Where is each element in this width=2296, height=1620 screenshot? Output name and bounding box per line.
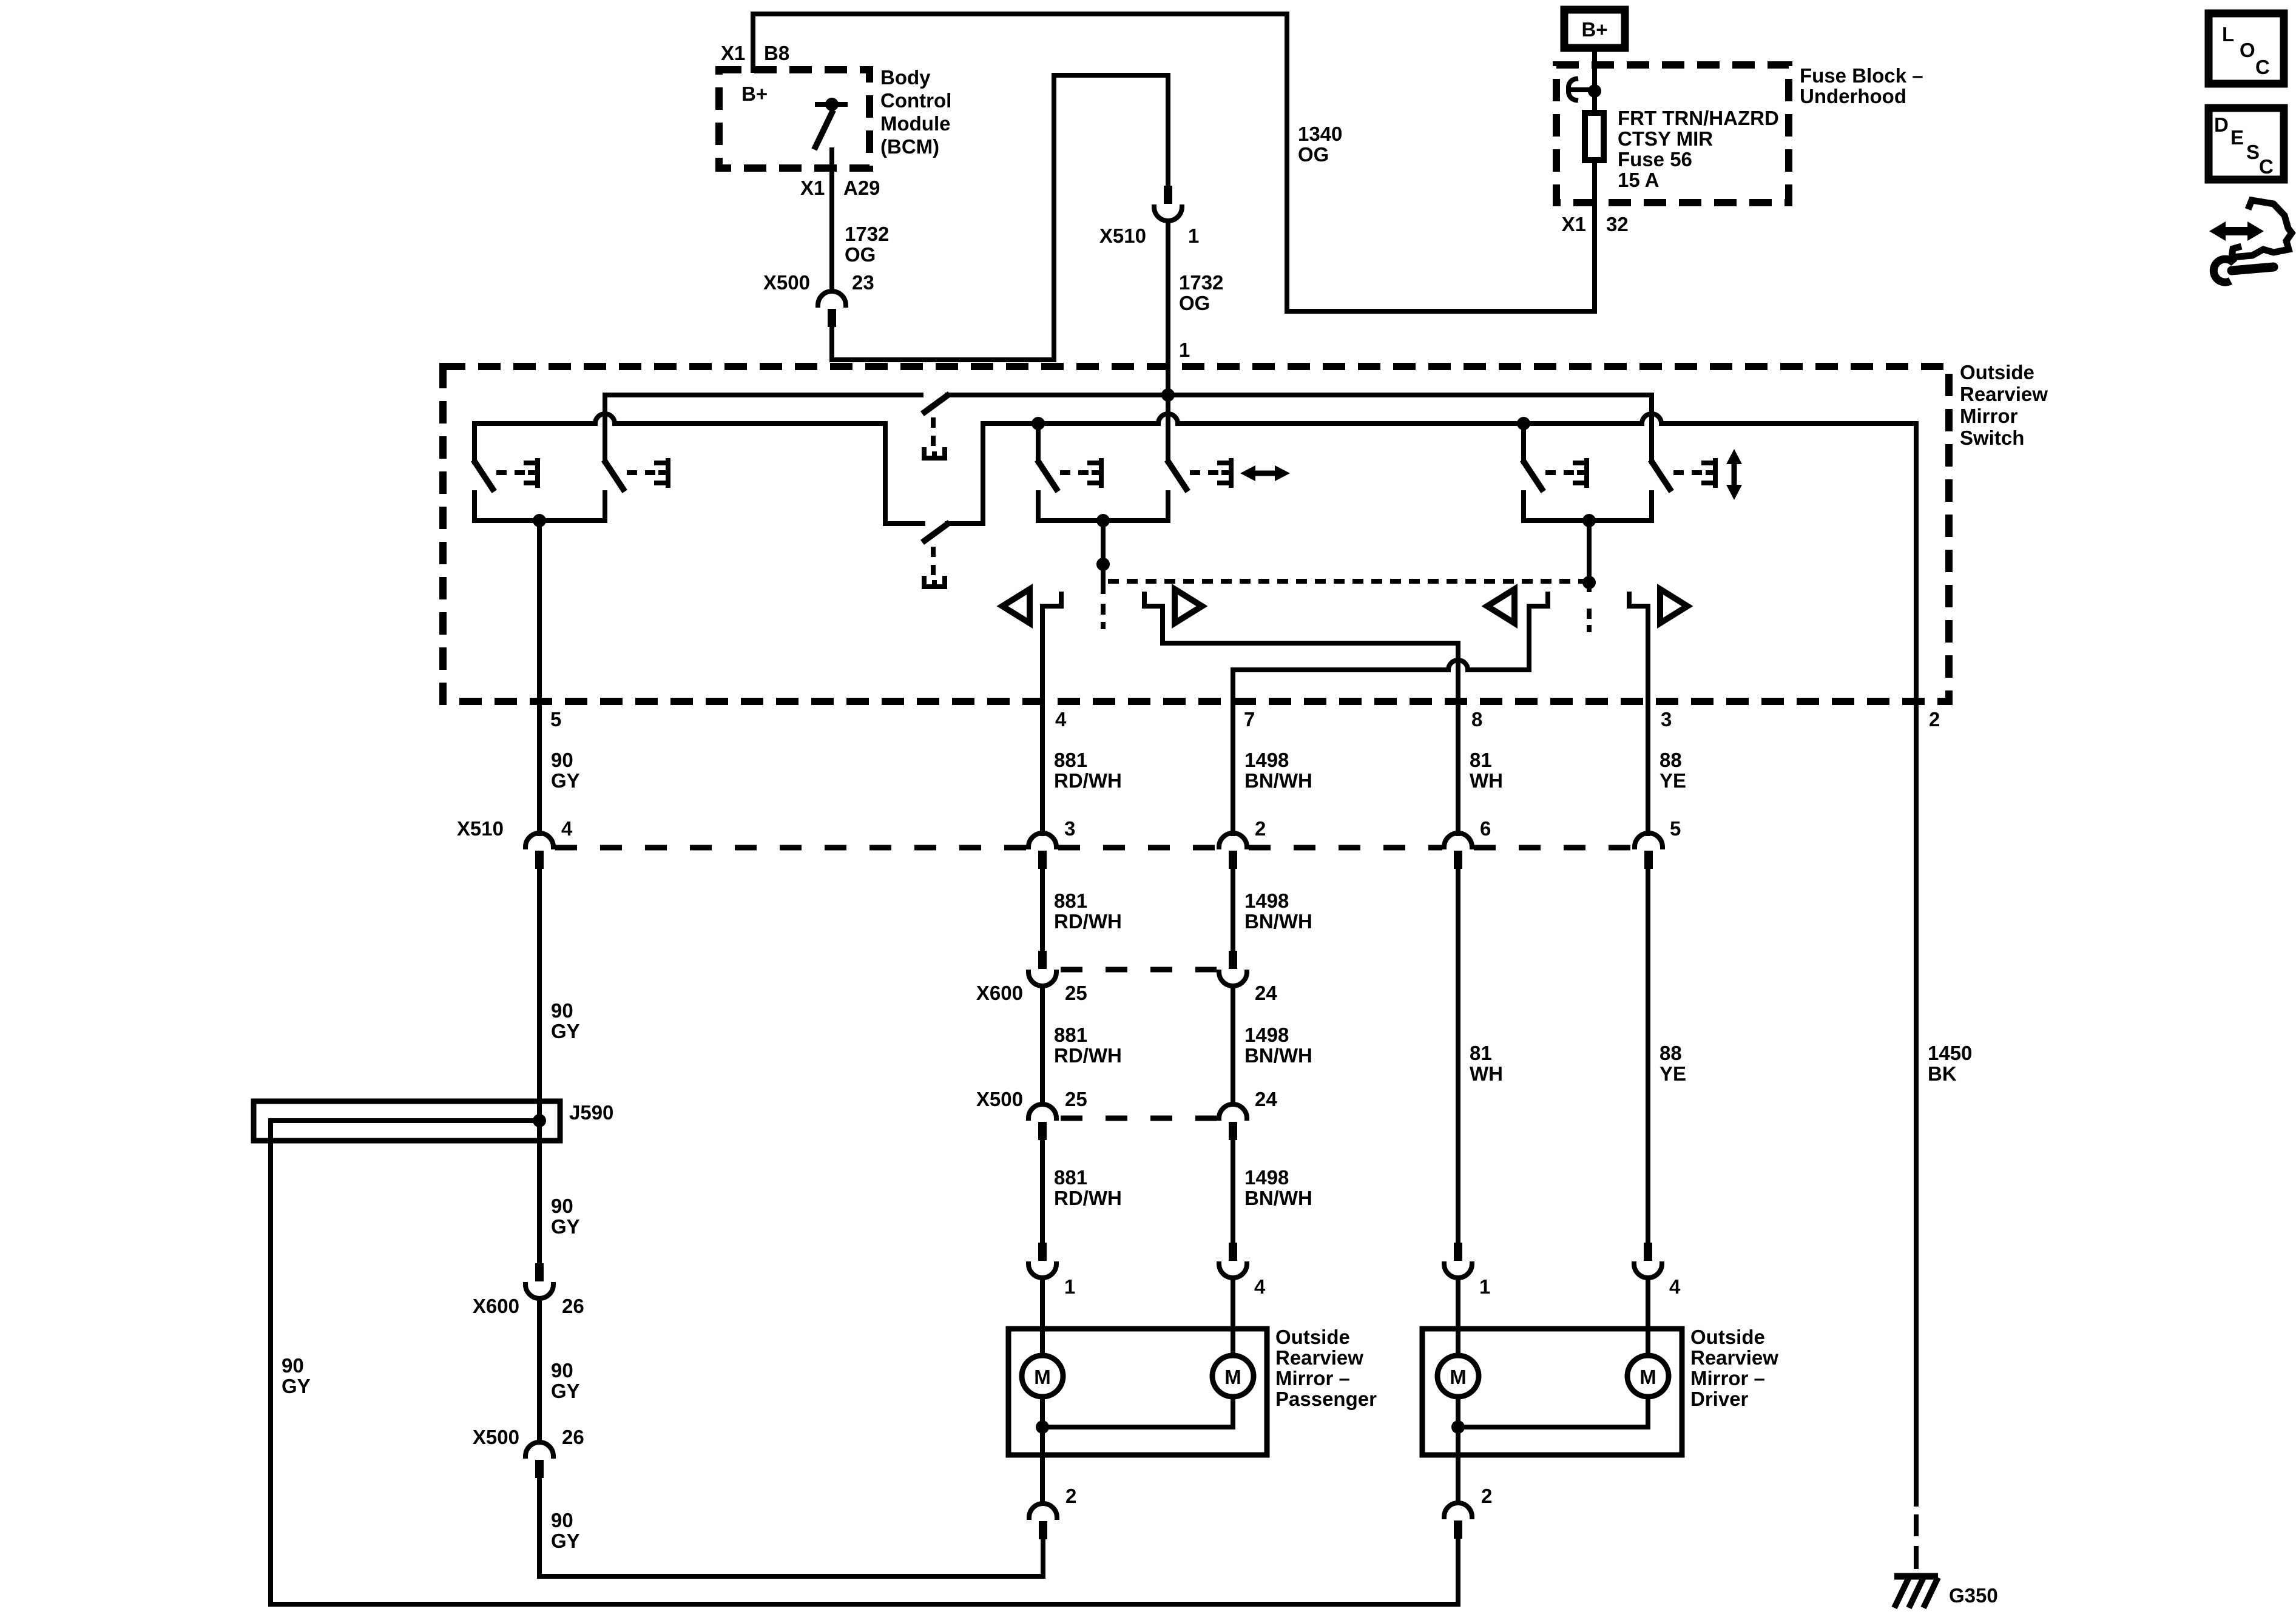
svg-text:2: 2 (1481, 1485, 1492, 1507)
svg-text:1450: 1450 (1928, 1042, 1972, 1064)
svg-text:15 A: 15 A (1618, 169, 1659, 191)
wire passenger pin 2 (1040, 1427, 1045, 1504)
svg-text:GY: GY (551, 769, 580, 792)
label wire 881 RD/WH (second) (1054, 889, 1122, 933)
svg-text:X600: X600 (473, 1295, 519, 1317)
svg-text:GY: GY (282, 1375, 311, 1397)
ground G350 symbol (1894, 1576, 1938, 1608)
svg-text:M: M (1639, 1366, 1656, 1388)
svg-text:RD/WH: RD/WH (1054, 769, 1122, 792)
svg-text:OG: OG (1179, 292, 1210, 314)
node pair A output junction (533, 514, 546, 527)
svg-text:1340: 1340 (1298, 123, 1342, 145)
label wire 90 GY (left branch) (282, 1354, 311, 1397)
icon mirror adjust with wrench (2209, 200, 2292, 282)
wire pin 8 (1456, 643, 1460, 834)
svg-text:1: 1 (1064, 1275, 1075, 1298)
svg-text:26: 26 (562, 1295, 584, 1317)
svg-text:S: S (2246, 141, 2260, 163)
switch A2 (left pair, bus1 feed) (605, 395, 656, 489)
svg-text:Rearview: Rearview (1275, 1346, 1363, 1369)
svg-text:X500: X500 (473, 1426, 519, 1448)
fuse clip terminal (1568, 79, 1592, 100)
indicator triangle left-group right (1175, 589, 1202, 623)
node pair C output junction (1582, 514, 1596, 527)
node X1 A29 (800, 177, 880, 199)
svg-text:J590: J590 (569, 1101, 613, 1124)
label wire 90 GY (pin5 upper) (551, 749, 580, 792)
svg-text:6: 6 (1480, 817, 1491, 840)
svg-text:90: 90 (551, 749, 573, 771)
node pair B output junction (1096, 514, 1110, 527)
svg-text:B8: B8 (764, 42, 789, 64)
svg-text:GY: GY (551, 1215, 580, 1238)
wire passenger pin 2 to 90 GY (1041, 1539, 1045, 1576)
svg-text:4: 4 (1254, 1275, 1266, 1298)
arrow up-down mirror adjust (1726, 449, 1742, 500)
svg-text:90: 90 (551, 1195, 573, 1217)
wire pin 4 (1040, 606, 1045, 834)
label 1732 OG (lower) (1179, 271, 1223, 314)
svg-text:24: 24 (1255, 1088, 1277, 1110)
connector X600 pin 26 (525, 1263, 553, 1298)
svg-text:1498: 1498 (1244, 889, 1289, 912)
wire BCM pin A29 down (829, 150, 834, 291)
contact bracket B1 (1090, 461, 1101, 485)
power B+ terminal box (fuse block) (1564, 10, 1625, 48)
wire driver pin 2 (1456, 1427, 1460, 1503)
svg-text:Fuse Block –: Fuse Block – (1800, 64, 1923, 87)
svg-text:X510: X510 (457, 817, 504, 840)
wire into driver motor pin4 (1646, 1278, 1650, 1376)
wire 1498 BN/WH between X600 and X500 (1231, 986, 1235, 1104)
svg-text:5: 5 (1670, 817, 1681, 840)
svg-text:32: 32 (1606, 213, 1629, 235)
wire into passenger motor pin4 (1231, 1278, 1235, 1376)
wire pair B common stub (1101, 521, 1106, 592)
wire B+ feed from fuse X1-32 to BCM X1-B8 (753, 14, 1595, 311)
icon LOC box (2209, 13, 2284, 84)
svg-text:GY: GY (551, 1530, 580, 1552)
svg-text:GY: GY (551, 1020, 580, 1042)
svg-text:BN/WH: BN/WH (1244, 1044, 1312, 1067)
switch B2 (center pair right, 1732 feed) (1168, 397, 1219, 489)
svg-text:RD/WH: RD/WH (1054, 1044, 1122, 1067)
indicator triangle right-group left (1487, 589, 1514, 623)
svg-text:Driver: Driver (1690, 1388, 1749, 1410)
svg-text:Rearview: Rearview (1960, 383, 2048, 405)
svg-text:25: 25 (1065, 982, 1087, 1004)
svg-text:23: 23 (852, 271, 874, 294)
svg-text:Mirror –: Mirror – (1690, 1367, 1765, 1389)
svg-text:X500: X500 (763, 271, 810, 294)
svg-text:4: 4 (1669, 1275, 1681, 1298)
node X1 32 (fuse block pin) (1562, 213, 1629, 235)
svg-text:YE: YE (1660, 769, 1686, 792)
svg-text:Outside: Outside (1275, 1326, 1350, 1348)
module Fuse Block - Underhood dashed box (1556, 65, 1789, 203)
svg-text:2: 2 (1255, 817, 1266, 840)
wire 88 YE to driver motor (1646, 869, 1650, 1243)
wire pin 7 (1231, 670, 1235, 834)
connector X600 pin 24 (1219, 951, 1247, 986)
svg-text:881: 881 (1054, 749, 1087, 771)
wire 90 GY pin5 column below X510 (537, 869, 542, 1263)
svg-text:1732: 1732 (845, 223, 889, 245)
connector row X600 dashed line (1061, 967, 1217, 973)
label wire 88 YE (pin3 upper) (1660, 749, 1686, 792)
label 1732 OG (upper left) (845, 223, 889, 266)
svg-text:M: M (1224, 1366, 1241, 1388)
motor M passenger left-right (1022, 1355, 1063, 1397)
wire pin 3 (1646, 606, 1650, 834)
wire 881 RD/WH to passenger motor (1040, 1140, 1045, 1243)
svg-text:8: 8 (1471, 708, 1482, 731)
svg-text:Mirror: Mirror (1960, 405, 2018, 427)
wire 1732 OG into switch pin 1 (1166, 221, 1170, 397)
node driver common junction (1451, 1420, 1465, 1434)
connector X500 pin 23 (818, 291, 846, 327)
wire U-frame pair B (1038, 493, 1168, 521)
svg-text:(BCM): (BCM) (880, 135, 939, 158)
svg-text:D: D (2214, 113, 2229, 136)
icon DESC box (2209, 108, 2284, 180)
label wire 81 WH (lower) (1470, 1042, 1503, 1085)
svg-text:88: 88 (1660, 749, 1682, 771)
label wire 1498 BN/WH (second) (1244, 889, 1312, 933)
svg-text:1732: 1732 (1179, 271, 1223, 294)
switch center select lower (blade on bus2 dip) (925, 524, 947, 576)
svg-text:B+: B+ (1581, 18, 1607, 41)
indicator bracket left-group right (to pin 8) (1144, 594, 1163, 643)
wire driver pin 2 to ground branch (1456, 1539, 1460, 1604)
connector X500 pin 25 (1028, 1104, 1056, 1140)
fuse F56 (FRT TRN/HAZRD CTSY MIR Fuse 56 15 A) (1585, 113, 1604, 160)
svg-text:B+: B+ (741, 83, 768, 105)
node X1 B8 (BCM pin label) (721, 42, 789, 64)
svg-text:BN/WH: BN/WH (1244, 910, 1312, 933)
node bus2 junction feeding switch B1 (1032, 417, 1045, 430)
wire passenger motor commons (1042, 1397, 1233, 1427)
svg-text:BN/WH: BN/WH (1244, 1187, 1312, 1209)
switch B1 (center pair left) (1038, 424, 1089, 489)
wire jog to pin 8 (1163, 641, 1458, 646)
svg-text:X510: X510 (1099, 224, 1146, 247)
connector passenger mirror pin 4 (1219, 1243, 1247, 1278)
connector X600 pin 25 (1028, 951, 1056, 986)
wire 90 GY to passenger mirror pin 2 (539, 1478, 1043, 1576)
label wire 88 YE (lower) (1660, 1042, 1686, 1085)
module Outside Rearview Mirror - Driver box (1422, 1329, 1682, 1455)
svg-text:7: 7 (1244, 708, 1255, 731)
svg-text:1498: 1498 (1244, 1024, 1289, 1046)
node bus1 / 1732 OG junction (1161, 388, 1175, 402)
module BCM box (Body Control Module) (719, 70, 869, 168)
svg-text:81: 81 (1470, 749, 1492, 771)
svg-text:2: 2 (1929, 708, 1940, 731)
label wire 1450 BK (1928, 1042, 1972, 1085)
contact bracket center upper (924, 450, 945, 458)
label wire 81 WH (pin8 upper) (1470, 749, 1503, 792)
node bus2 junction feeding switch C1 (1517, 417, 1530, 430)
connector X510 pin 6 (1444, 833, 1472, 869)
wire ground branch from J590 (271, 1121, 1457, 1604)
wire U-frame pair C (1524, 493, 1652, 521)
svg-text:M: M (1450, 1366, 1467, 1388)
svg-text:M: M (1034, 1366, 1051, 1388)
contact bracket center lower (924, 578, 945, 587)
svg-text:Control: Control (880, 89, 951, 112)
svg-text:X1: X1 (1562, 213, 1586, 235)
connector X500 pin 26 (525, 1442, 553, 1478)
connector driver mirror pin 2 (1444, 1503, 1472, 1539)
svg-text:3: 3 (1064, 817, 1075, 840)
wire pin 5 (537, 521, 542, 834)
svg-text:Outside: Outside (1690, 1326, 1765, 1348)
wire into driver motor (1456, 1278, 1460, 1376)
svg-text:81: 81 (1470, 1042, 1492, 1064)
svg-text:A29: A29 (843, 177, 880, 199)
module Outside Rearview Mirror - Passenger box (1008, 1329, 1267, 1455)
svg-text:4: 4 (1055, 708, 1067, 731)
linkage dashed line between pair B and pair C commons (1108, 579, 1589, 584)
label wire 1498 BN/WH (pin7 upper) (1244, 749, 1312, 792)
svg-text:Outside: Outside (1960, 361, 2034, 383)
svg-text:OG: OG (845, 243, 876, 266)
svg-text:1: 1 (1188, 224, 1199, 247)
svg-text:OG: OG (1298, 143, 1329, 166)
svg-text:FRT TRN/HAZRD: FRT TRN/HAZRD (1618, 107, 1779, 129)
switch center select upper (blade on bus1) (925, 396, 947, 447)
wire U-frame pair A to pin 5 (474, 493, 605, 521)
node fuse feed junction (1588, 84, 1601, 98)
svg-text:1: 1 (1179, 339, 1190, 361)
wire into passenger motor (1040, 1278, 1045, 1376)
connector passenger mirror pin 2 (1029, 1504, 1057, 1539)
motor M driver left-right (1437, 1355, 1479, 1397)
svg-text:RD/WH: RD/WH (1054, 1187, 1122, 1209)
wire from X500-23 to X510-1 (832, 75, 1168, 360)
svg-text:L: L (2222, 23, 2234, 46)
label wire 881 RD/WH (pin4 upper) (1054, 749, 1122, 792)
svg-text:C: C (2255, 56, 2270, 78)
wire 1498 BN/WH to passenger motor (1231, 1140, 1235, 1243)
svg-text:5: 5 (550, 708, 561, 731)
svg-text:X1: X1 (800, 177, 825, 199)
svg-text:G350: G350 (1949, 1584, 1998, 1607)
wire 881 RD/WH column below X510 (1040, 869, 1045, 951)
svg-text:881: 881 (1054, 1166, 1087, 1189)
label wire 90 GY (below J590) (551, 1195, 580, 1238)
svg-text:90: 90 (551, 999, 573, 1022)
svg-text:C: C (2259, 155, 2274, 178)
svg-text:E: E (2230, 126, 2244, 149)
svg-text:Mirror –: Mirror – (1275, 1367, 1350, 1389)
svg-text:90: 90 (551, 1359, 573, 1382)
svg-text:X500: X500 (976, 1088, 1023, 1110)
svg-text:24: 24 (1255, 982, 1277, 1004)
svg-text:WH: WH (1470, 769, 1503, 792)
motor M driver up-down (1627, 1355, 1669, 1397)
BCM label text (880, 66, 951, 158)
svg-text:88: 88 (1660, 1042, 1682, 1064)
svg-text:881: 881 (1054, 889, 1087, 912)
indicator triangle right-group right (1660, 589, 1687, 623)
svg-text:Fuse 56: Fuse 56 (1618, 148, 1692, 170)
svg-text:RD/WH: RD/WH (1054, 910, 1122, 933)
module Outside Rearview Mirror Switch dashed box (443, 366, 1949, 701)
switch Q1 (BCM internal driver switch) (815, 98, 845, 147)
indicator triangle left-group left (1002, 589, 1030, 623)
contact bracket B2 (1220, 461, 1231, 485)
svg-text:90: 90 (551, 1509, 573, 1531)
switch C2 (right pair right, bus1 feed) (1652, 395, 1703, 489)
indicator bracket right-group left (to pin 7) (1529, 594, 1548, 670)
connector driver mirror pin 4 (1634, 1243, 1662, 1278)
svg-text:GY: GY (551, 1380, 580, 1402)
svg-text:881: 881 (1054, 1024, 1087, 1046)
wire bus1 (feed rail from pin 1) (605, 393, 921, 397)
connector X510 pin 1 (1154, 186, 1182, 221)
svg-text:3: 3 (1661, 708, 1672, 731)
contact bracket C2 (1704, 461, 1715, 485)
indicator bracket right-group right (to pin 3) (1629, 594, 1648, 606)
svg-text:YE: YE (1660, 1062, 1686, 1085)
connector row X500 dashed line (1061, 1116, 1217, 1121)
wire 881 RD/WH between X600 and X500 (1040, 986, 1045, 1104)
connector X510 pin 2 (1219, 833, 1247, 869)
contact bracket A2 (657, 461, 668, 485)
label 1340 OG (1298, 123, 1342, 166)
wire 81 WH to driver motor (1456, 869, 1460, 1243)
indicator bracket left-group left (to pin 4) (1042, 594, 1061, 606)
connector passenger mirror pin 1 (1028, 1243, 1056, 1278)
svg-text:WH: WH (1470, 1062, 1503, 1085)
wire 90 GY between X600 and X500 (537, 1298, 542, 1442)
switch C1 (right pair left) (1524, 424, 1575, 489)
svg-text:Switch: Switch (1960, 427, 2024, 449)
svg-text:BN/WH: BN/WH (1244, 769, 1312, 792)
svg-text:BK: BK (1928, 1062, 1957, 1085)
svg-text:1: 1 (1479, 1275, 1490, 1298)
motor M passenger up-down (1212, 1355, 1254, 1397)
svg-text:1498: 1498 (1244, 749, 1289, 771)
svg-text:1498: 1498 (1244, 1166, 1289, 1189)
wire driver motor commons (1458, 1397, 1648, 1427)
contact bracket A1 (526, 461, 538, 485)
connector X510 pin 4 (525, 833, 553, 869)
wire pair C common stub (1587, 521, 1592, 590)
svg-text:Underhood: Underhood (1800, 85, 1906, 107)
svg-text:2: 2 (1065, 1485, 1076, 1507)
switch A1 (left pair, bus2 feed) (474, 424, 525, 489)
label wire 90 GY (mid) (551, 999, 580, 1042)
svg-text:Module: Module (880, 112, 950, 135)
node passenger common junction (1036, 1420, 1049, 1434)
contact bracket C1 (1575, 461, 1587, 485)
splice pack J590 (254, 1101, 560, 1141)
arrow left-right mirror adjust (1240, 465, 1290, 481)
svg-text:25: 25 (1065, 1088, 1087, 1110)
connector driver mirror pin 1 (1444, 1243, 1472, 1278)
svg-text:Passenger: Passenger (1275, 1388, 1377, 1410)
svg-text:X600: X600 (976, 982, 1023, 1004)
svg-text:90: 90 (282, 1354, 304, 1377)
connector X500 pin 24 (1219, 1104, 1247, 1140)
wire bus2 (second rail) with hops (474, 414, 923, 524)
wire 1498 BN/WH column below X510 (1231, 869, 1235, 951)
svg-text:26: 26 (562, 1426, 584, 1448)
svg-text:X1: X1 (721, 42, 745, 64)
wire B+ stub into fuse (1592, 52, 1597, 215)
connector row X510 dashed line (555, 845, 1633, 851)
wire jog to pin 7 with hop over pin 8 (1233, 660, 1529, 670)
svg-text:O: O (2240, 39, 2255, 61)
svg-text:Body: Body (880, 66, 931, 89)
svg-text:Rearview: Rearview (1690, 1346, 1778, 1369)
wire 1450 BK to ground (1914, 701, 1919, 1504)
svg-text:CTSY MIR: CTSY MIR (1618, 127, 1713, 150)
connector X510 pin 5 (1635, 833, 1663, 869)
connector X510 pin 3 (1028, 833, 1056, 869)
svg-text:4: 4 (561, 817, 573, 840)
